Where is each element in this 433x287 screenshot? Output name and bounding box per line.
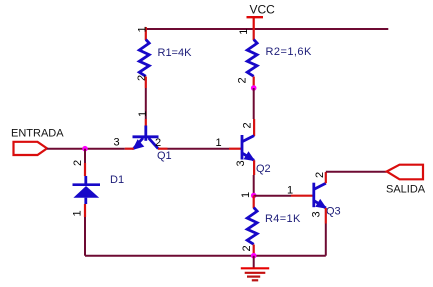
junction node ground xyxy=(251,253,257,259)
pin Q2.1 red segment xyxy=(229,148,242,150)
wire D1 top xyxy=(84,149,86,163)
pin Q3.1 red segment xyxy=(291,195,314,197)
svg-text:1: 1 xyxy=(240,192,252,198)
pin Q1.1 red segment xyxy=(145,119,147,126)
svg-text:ENTRADA: ENTRADA xyxy=(11,128,64,140)
svg-text:1: 1 xyxy=(137,111,149,117)
svg-text:1: 1 xyxy=(238,29,250,35)
svg-text:1: 1 xyxy=(216,137,222,149)
svg-text:1: 1 xyxy=(72,210,84,216)
wire Q2 emitter to junction xyxy=(253,175,255,196)
transistor Q1 xyxy=(132,126,158,151)
svg-text:2: 2 xyxy=(155,137,161,149)
resistor R1 xyxy=(139,40,149,77)
transistor Q2 xyxy=(242,135,255,161)
resistor R2 xyxy=(247,40,257,77)
wire VCC top rail xyxy=(145,28,388,30)
resistor R4 xyxy=(247,208,257,245)
wire Q3 emitter to bottom rail xyxy=(325,224,327,256)
pin R4.1 red segment xyxy=(253,196,255,209)
transistor Q3 xyxy=(314,183,327,209)
svg-text:VCC: VCC xyxy=(250,2,276,16)
power symbol VCC xyxy=(247,17,264,30)
port SALIDA xyxy=(387,165,423,180)
svg-text:3: 3 xyxy=(235,160,247,166)
svg-text:SALIDA: SALIDA xyxy=(386,184,426,196)
junction node Q2/R4/Q3 xyxy=(251,193,257,199)
wire R2 to Q2 xyxy=(253,88,255,119)
svg-text:2: 2 xyxy=(241,245,253,251)
pin R1.2 red segment xyxy=(145,77,147,89)
diode D1 xyxy=(73,176,101,204)
wire junction to Q3 base xyxy=(254,195,291,197)
svg-text:2: 2 xyxy=(242,122,254,128)
pin Q3.2 red segment xyxy=(325,172,327,183)
pin R1.1 red segment xyxy=(145,27,147,40)
svg-text:2: 2 xyxy=(72,160,84,166)
svg-text:1: 1 xyxy=(136,26,148,32)
pin Q1.2 red segment xyxy=(158,148,168,150)
svg-text:Q1: Q1 xyxy=(157,150,172,162)
wire D1 to bottom rail xyxy=(84,217,86,256)
pin R2.1 red segment xyxy=(253,29,255,40)
svg-text:R2=1,6K: R2=1,6K xyxy=(266,46,312,58)
svg-text:R1=4K: R1=4K xyxy=(158,47,193,59)
pin Q2.3 red segment xyxy=(253,160,255,175)
svg-text:3: 3 xyxy=(114,137,120,149)
wire bottom rail xyxy=(85,255,326,257)
pin D1.2 red segment xyxy=(84,163,86,176)
junction node ENTRADA/D1 xyxy=(82,146,88,152)
wire Q3 collector to SALIDA xyxy=(326,171,387,173)
svg-text:2: 2 xyxy=(314,172,326,178)
wire R1 to Q1 xyxy=(145,88,147,119)
svg-text:2: 2 xyxy=(237,77,249,83)
junction node R2/Q2 xyxy=(251,85,257,91)
ground symbol xyxy=(241,256,269,281)
wire Q1 to Q2 xyxy=(168,148,230,150)
svg-text:D1: D1 xyxy=(110,174,124,186)
pin R2.2 red segment xyxy=(253,77,255,87)
wire ENTRADA to Q1 xyxy=(47,148,125,150)
port ENTRADA xyxy=(14,142,48,155)
svg-text:Q2: Q2 xyxy=(256,163,271,175)
pin Q3.3 red segment xyxy=(325,208,327,224)
pin Q2.2 red segment xyxy=(253,119,255,136)
pin R4.2 red segment xyxy=(253,245,255,256)
svg-text:Q3: Q3 xyxy=(326,206,341,218)
svg-text:3: 3 xyxy=(311,211,323,217)
pin D1.1 red segment xyxy=(84,204,86,217)
svg-text:R4=1K: R4=1K xyxy=(265,213,301,225)
pin Q1.3 red segment xyxy=(125,148,134,150)
